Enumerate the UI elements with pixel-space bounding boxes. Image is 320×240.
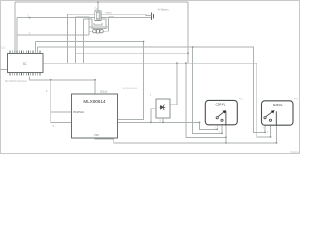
svg-text:D2P-FL: D2P-FL: [273, 103, 283, 107]
svg-text:MLX90614ESF: MLX90614ESF: [123, 88, 138, 90]
svg-text:SCL/in: SCL/in: [100, 90, 108, 93]
svg-text:16MHz: 16MHz: [105, 13, 112, 15]
svg-text:MLX90614: MLX90614: [83, 99, 106, 104]
svg-text:PWM/SDA: PWM/SDA: [73, 111, 84, 114]
svg-text:VSS: VSS: [94, 134, 99, 137]
svg-text:C2P-FL: C2P-FL: [216, 103, 226, 107]
svg-text:U1: U1: [2, 46, 6, 50]
svg-text:fritzing: fritzing: [290, 150, 299, 154]
svg-text:MLX90614 Module: MLX90614 Module: [5, 79, 27, 83]
svg-text:9V Battery: 9V Battery: [158, 9, 170, 12]
